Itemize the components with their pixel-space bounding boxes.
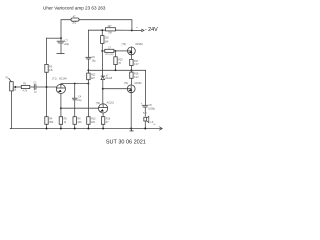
chassis ground: [131, 129, 133, 131]
node base divider: [46, 86, 48, 88]
resistor R10 (horiz on rail2): [106, 28, 116, 31]
wire T1 collector: [61, 83, 89, 86]
capacitor C1: [33, 85, 35, 90]
resistor R5: [59, 117, 62, 125]
wire speaker to ground: [144, 121, 146, 129]
resistor R1: [21, 85, 30, 88]
column x=88.4 : supply to bootstrap: [87, 30, 89, 57]
svg-text:4k7: 4k7: [108, 25, 113, 28]
svg-text:220: 220: [105, 37, 110, 40]
svg-text:4k7: 4k7: [91, 77, 96, 80]
resistor R2 (supply decoupling pill): [71, 18, 79, 21]
column x=102.8 : node B down through diode to lower base / T2 collector: [101, 51, 103, 76]
svg-text:SUT 30 06 2021: SUT 30 06 2021: [106, 140, 146, 146]
wire column down to R13: [87, 84, 89, 117]
svg-text:Uher Variocord amp 23 63 263: Uher Variocord amp 23 63 263: [43, 6, 106, 11]
resistor R12 (T1 load): [87, 73, 90, 80]
svg-text:0.47: 0.47: [134, 63, 139, 66]
supply rail2: [88, 29, 105, 31]
svg-text:BC149: BC149: [59, 78, 67, 81]
resistor R15 (bias, vert x=115.5): [115, 51, 117, 57]
capacitor C7: [57, 40, 64, 42]
wire lower output base: [103, 88, 128, 90]
wire divider column: [46, 38, 48, 64]
ground rail: [10, 128, 161, 130]
resistor R11: [101, 36, 104, 44]
supply arrow -24V: [132, 29, 142, 31]
wire: [47, 37, 62, 39]
wire T1 emitter: [60, 94, 62, 117]
output rail: [88, 69, 145, 71]
node bootstrap/output-rail left end: [87, 69, 89, 71]
resistor R9: [73, 117, 76, 125]
wire: [46, 124, 48, 128]
node supply-dec: [60, 37, 62, 39]
svg-text:(B): (B): [110, 54, 113, 56]
node grounds: [46, 128, 48, 130]
svg-text:(T3): (T3): [122, 43, 127, 46]
svg-text:+10µ: +10µ: [64, 43, 70, 46]
wire T2 base: [61, 107, 99, 109]
node output: [130, 69, 132, 71]
node B driver collector chain: [101, 50, 103, 52]
wire: [30, 86, 35, 88]
svg-text:1000µ: 1000µ: [148, 107, 155, 110]
svg-text:1k5: 1k5: [91, 121, 96, 124]
ground (C7): [57, 53, 64, 55]
wire emitter to R17: [130, 55, 132, 60]
svg-text:AD163: AD163: [134, 82, 142, 85]
svg-text:B?U: B?U: [105, 54, 110, 56]
svg-text:AC151: AC151: [107, 102, 115, 105]
column x=102.3 driver load: [101, 30, 103, 35]
resistor R17: [130, 59, 133, 65]
resistor R13: [87, 117, 90, 125]
svg-text:10µ: 10µ: [77, 99, 82, 102]
node lower base: [102, 88, 104, 90]
wire T4 emitter to ground: [130, 93, 132, 129]
resistor R14 (horiz base stopper): [105, 49, 114, 52]
capacitor C6: [86, 56, 91, 58]
svg-text:10µ: 10µ: [92, 60, 97, 63]
resistor R3: [45, 64, 48, 72]
node T2 base tap: [60, 107, 62, 109]
svg-text:4,7k: 4,7k: [22, 89, 27, 92]
svg-text:0.47: 0.47: [134, 76, 139, 79]
svg-text:560: 560: [49, 121, 54, 124]
resistor R18: [130, 70, 132, 72]
resistor R16: [101, 117, 104, 125]
svg-text:AA116: AA116: [105, 77, 113, 80]
wire upper base row: [102, 50, 105, 52]
resistor R4: [45, 117, 48, 125]
diode D1: [101, 75, 105, 77]
svg-text:100: 100: [77, 121, 82, 124]
node T1 collector / load R: [87, 83, 89, 85]
svg-text:(T1): (T1): [52, 78, 57, 81]
wire T2 emitter: [102, 113, 104, 117]
svg-text:AD162: AD162: [135, 43, 143, 46]
svg-text:2k2: 2k2: [72, 22, 77, 25]
wire: [46, 72, 48, 116]
wire pot to ground rail: [10, 91, 11, 129]
wire top rail1: [61, 20, 71, 39]
capacitor C4 column: [74, 84, 76, 99]
node C4 tap: [74, 83, 76, 85]
loudspeaker LS: [144, 117, 147, 121]
wire base of T1: [36, 86, 57, 88]
svg-text:(T2): (T2): [96, 102, 101, 105]
wire output rail to C5: [145, 70, 147, 105]
svg-text:- 24V: - 24V: [145, 27, 158, 33]
svg-text:(T4): (T4): [124, 82, 129, 85]
wire wiper: [16, 86, 21, 88]
